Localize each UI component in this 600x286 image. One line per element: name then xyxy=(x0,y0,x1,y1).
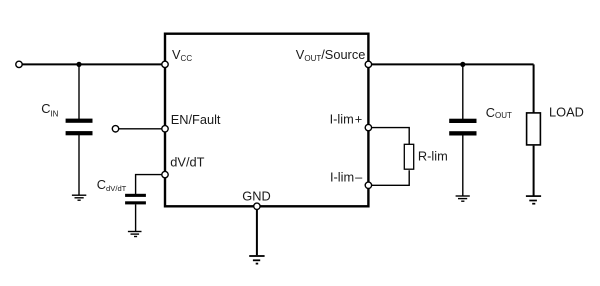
svg-text:CIN: CIN xyxy=(41,101,58,118)
svg-text:I-lim –: I-lim – xyxy=(330,169,363,184)
wire COUT to ground xyxy=(462,136,464,196)
input terminal xyxy=(16,61,22,67)
wire CIN to ground xyxy=(78,135,80,195)
svg-text:GND: GND xyxy=(242,189,270,204)
pin VOUT/Source xyxy=(365,61,371,67)
pin VCC xyxy=(162,61,168,67)
resistor LOAD xyxy=(527,113,541,145)
ground under COUT xyxy=(456,196,470,201)
capacitor CIN xyxy=(66,119,93,136)
ground under CdV/dT xyxy=(128,232,142,237)
svg-text:CdV/dT: CdV/dT xyxy=(97,177,127,193)
svg-text:VOUT/Source: VOUT/Source xyxy=(296,47,366,63)
svg-text:R-lim: R-lim xyxy=(418,148,448,163)
pin dV/dT xyxy=(162,171,168,177)
wire LOAD to ground xyxy=(533,146,535,196)
wire LOAD branch xyxy=(533,64,535,112)
capacitor CdV/dT xyxy=(125,194,146,205)
svg-text:EN/Fault: EN/Fault xyxy=(171,112,221,127)
ground under LOAD xyxy=(526,196,541,204)
wire dV/dT to CdV/dT xyxy=(136,175,165,195)
svg-text:VCC: VCC xyxy=(172,47,192,63)
wire VOUT to LOAD xyxy=(368,63,533,65)
ground under CIN xyxy=(72,195,86,200)
IC block U1 xyxy=(165,34,368,207)
wire CIN branch xyxy=(78,64,80,119)
wire CdV/dT to ground xyxy=(135,204,137,231)
svg-text:COUT: COUT xyxy=(486,105,512,120)
pin EN/Fault xyxy=(162,126,168,132)
resistor R-lim xyxy=(404,144,413,169)
wire input to VCC xyxy=(19,63,165,65)
wire COUT branch xyxy=(462,64,464,119)
ground at GND pin xyxy=(249,256,264,264)
wire I-lim- to R-lim xyxy=(368,170,409,185)
wire EN terminal to pin xyxy=(116,128,166,130)
pin I-lim+ xyxy=(365,124,371,130)
junction at COUT node xyxy=(460,62,465,67)
wire I-lim+ to R-lim xyxy=(368,128,409,145)
junction at CIN node xyxy=(76,62,81,67)
svg-text:dV/dT: dV/dT xyxy=(170,155,204,170)
wire GND to ground xyxy=(256,206,258,255)
svg-text:I-lim +: I-lim + xyxy=(330,112,363,127)
EN terminal xyxy=(112,126,118,132)
svg-text:LOAD: LOAD xyxy=(549,104,584,119)
pin I-lim- xyxy=(365,182,371,188)
capacitor COUT xyxy=(449,119,476,136)
pin GND xyxy=(254,203,260,209)
